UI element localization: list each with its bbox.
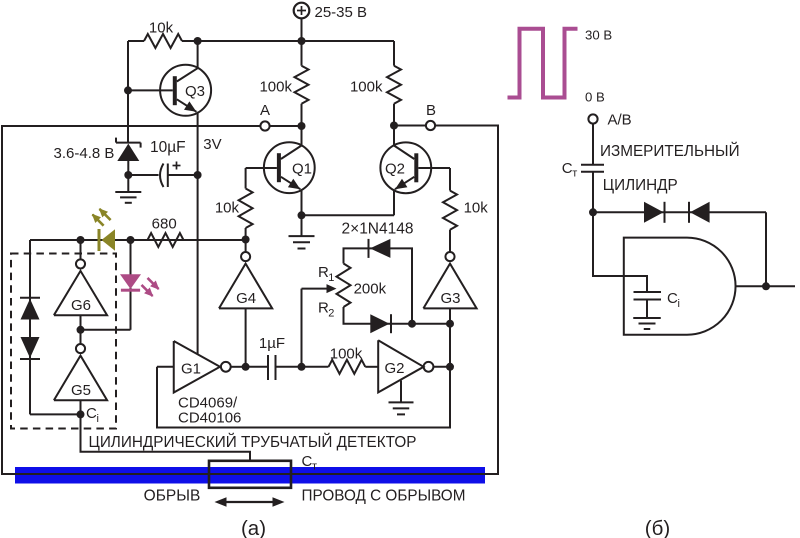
- wire G5 out: [80, 400, 82, 414]
- label measuring cylinder: [600, 142, 740, 194]
- svg-text:т: т: [572, 168, 577, 180]
- svg-text:Q2: Q2: [385, 161, 405, 178]
- node A/B terminal: [588, 112, 631, 129]
- svg-text:ЦИЛИНДР: ЦИЛИНДР: [603, 177, 678, 194]
- junction G6 input: [77, 236, 85, 244]
- led LED1 yellow: [92, 208, 115, 251]
- detector tube CT box: [209, 461, 291, 488]
- svg-text:(б): (б): [645, 517, 670, 538]
- capacitor Ci (b): [634, 290, 680, 310]
- wire left vertical rail-to-zener: [127, 41, 129, 142]
- junction Q3 base: [124, 86, 132, 94]
- label 30V: [585, 28, 612, 43]
- svg-text:Q1: Q1: [292, 161, 312, 178]
- junction diode row mid: [408, 320, 416, 328]
- svg-text:C: C: [86, 405, 97, 422]
- junction G2out/G3/feedback: [446, 363, 454, 371]
- junction emitters/ground: [298, 211, 306, 219]
- inverter G6: [54, 240, 107, 315]
- resistor 100k left: [259, 41, 308, 126]
- svg-text:2: 2: [328, 308, 334, 320]
- blue wire under test: [15, 467, 485, 484]
- resistor 680: [148, 216, 184, 247]
- svg-text:10k: 10k: [215, 200, 240, 217]
- label CD4069/CD40106: [178, 395, 241, 427]
- wire top rail: [182, 40, 394, 42]
- resistor 10k Q1 base: [215, 168, 253, 240]
- wire chain bottom: [30, 413, 81, 415]
- svg-text:т: т: [312, 461, 317, 473]
- svg-text:ИЗМЕРИТЕЛЬНЫЙ: ИЗМЕРИТЕЛЬНЫЙ: [600, 142, 740, 160]
- wire G2 output: [433, 366, 450, 368]
- wire Q3 emitter vertical 3V: [198, 112, 222, 354]
- svg-text:Q3: Q3: [185, 83, 205, 100]
- svg-text:G2: G2: [385, 360, 405, 377]
- wire cylinder output: [736, 285, 795, 287]
- svg-text:C: C: [302, 453, 313, 470]
- junction cap/emitter line: [194, 171, 202, 179]
- node A terminal: [260, 102, 270, 131]
- wire diode row to G3: [449, 308, 451, 323]
- wire top rail left: [128, 40, 144, 42]
- svg-text:200k: 200k: [354, 281, 387, 298]
- label detector: [89, 433, 417, 451]
- svg-text:3.6-4.8 В: 3.6-4.8 В: [54, 145, 115, 162]
- wire LED2 to junction: [81, 329, 131, 331]
- junction G6/G5/LED2: [77, 326, 85, 334]
- svg-text:i: i: [678, 298, 680, 310]
- wire right edge of loop: [497, 125, 499, 476]
- label CT: [302, 453, 318, 473]
- svg-text:2×1N4148: 2×1N4148: [342, 221, 414, 238]
- zener diode 3.6-4.8V: [54, 138, 141, 175]
- svg-text:G5: G5: [71, 382, 91, 399]
- label (a): [241, 517, 266, 538]
- double arrow break span: [215, 497, 285, 507]
- wire G1 input: [157, 366, 174, 368]
- junction Ci node: [77, 405, 99, 425]
- wire A/B down: [592, 124, 594, 165]
- ground G2: [389, 381, 414, 415]
- svg-text:G6: G6: [71, 297, 91, 314]
- wire Q3 collector up: [197, 41, 199, 68]
- svg-text:G4: G4: [236, 290, 256, 307]
- capacitor 1uF: [246, 335, 302, 380]
- svg-text:10µF: 10µF: [150, 139, 186, 156]
- junction rail/supply: [298, 37, 306, 45]
- junction rail/Q3 collector: [194, 37, 202, 45]
- svg-text:100k: 100k: [330, 346, 363, 363]
- dashed enclosure: [11, 254, 116, 429]
- svg-text:CD40106: CD40106: [178, 410, 241, 427]
- svg-text:1µF: 1µF: [259, 335, 285, 352]
- inverter G4: [219, 240, 272, 309]
- svg-text:30 В: 30 В: [585, 28, 612, 43]
- wire B right: [436, 125, 498, 127]
- junction diode row right: [446, 320, 454, 328]
- wire rail corner to right 100k: [393, 41, 395, 66]
- junction node A/100k/Q1: [298, 122, 306, 130]
- label (b): [645, 517, 670, 538]
- resistor 100k right: [350, 66, 401, 126]
- ground Q1/Q2 emitters: [289, 215, 315, 248]
- svg-text:(а): (а): [241, 517, 266, 538]
- label ПРОВОД С ОБРЫВОМ: [302, 488, 466, 505]
- label 0V: [585, 90, 605, 105]
- wire LED row: [30, 239, 246, 241]
- wire Q2 emitter down: [393, 189, 395, 215]
- inverter G1: [174, 341, 231, 393]
- svg-text:10k: 10k: [464, 200, 489, 217]
- junction 680/10k/G4: [242, 236, 250, 244]
- svg-text:ПРОВОД С ОБРЫВОМ: ПРОВОД С ОБРЫВОМ: [302, 488, 466, 505]
- svg-text:100k: 100k: [350, 79, 383, 96]
- svg-text:A/B: A/B: [608, 112, 632, 129]
- ground Ci: [633, 300, 661, 330]
- diode D4 (bottom, points right): [370, 314, 391, 333]
- wire Q1 collector: [301, 126, 303, 146]
- svg-text:ОБРЫВ: ОБРЫВ: [144, 488, 201, 505]
- wire diodes down right: [765, 212, 767, 286]
- resistor 100k G2: [302, 346, 379, 374]
- junction 1uF/100k/wiper: [298, 363, 306, 371]
- wire G2out to diode row: [449, 324, 451, 367]
- svg-text:C: C: [562, 160, 573, 177]
- power supply 25-35V terminal: [294, 3, 367, 41]
- transistor Q1: [246, 142, 315, 193]
- diode D-up (chain top): [20, 298, 40, 320]
- wire pot top: [344, 248, 413, 323]
- svg-text:10k: 10k: [149, 20, 174, 37]
- led LED2 pink: [120, 274, 159, 297]
- junction G1out/G4/1uF: [242, 363, 250, 371]
- svg-text:680: 680: [152, 216, 177, 233]
- cylinder gate shape: [624, 238, 736, 335]
- inverter G3: [423, 252, 476, 308]
- junction LED2 branch: [127, 236, 135, 244]
- svg-text:i: i: [97, 413, 99, 425]
- svg-text:25-35 В: 25-35 В: [315, 4, 368, 21]
- wire Ci to detector: [81, 414, 251, 460]
- wire B left: [394, 125, 425, 127]
- potentiometer 200k R1/R2: [302, 264, 387, 320]
- svg-text:100k: 100k: [259, 79, 292, 96]
- wire diode-chain corner: [29, 240, 31, 414]
- svg-text:B: B: [426, 102, 436, 119]
- svg-text:A: A: [260, 102, 270, 119]
- diode D6 (points left): [689, 202, 710, 223]
- label break ОБРЫВ: [144, 488, 201, 505]
- transistor Q2: [380, 142, 450, 193]
- svg-text:1: 1: [328, 272, 334, 284]
- transistor Q3: [128, 65, 211, 116]
- inverter G5: [54, 330, 107, 400]
- svg-text:G1: G1: [181, 361, 201, 378]
- capacitor 10uF: [128, 139, 197, 187]
- wire detector conductor: [1, 473, 498, 475]
- wire into cylinder: [593, 212, 647, 292]
- wire left edge of loop: [1, 125, 3, 475]
- wire G6 out: [80, 315, 82, 330]
- node B terminal: [426, 102, 436, 130]
- diode D-down (chain bottom): [20, 337, 40, 359]
- svg-text:0 В: 0 В: [585, 90, 605, 105]
- junction node B/100k/Q2: [390, 122, 398, 130]
- wire pot bottom: [344, 307, 451, 324]
- wire Q1 emitter down: [301, 189, 303, 215]
- inverter G2: [378, 340, 433, 392]
- wire emitter bridge Q1-Q2: [302, 214, 395, 216]
- junction CT node: [589, 208, 597, 216]
- svg-text:3V: 3V: [203, 136, 221, 153]
- svg-text:C: C: [667, 290, 678, 307]
- svg-text:G3: G3: [440, 290, 460, 307]
- ground below zener: [115, 175, 141, 203]
- junction zener/cap/ground: [124, 171, 132, 179]
- wire G4 to G1 output: [245, 308, 247, 366]
- diode D5 (points right): [644, 202, 665, 223]
- capacitor CT (b): [562, 160, 604, 180]
- resistor 10k G3-Q2: [443, 168, 488, 252]
- wire G1 output: [231, 366, 246, 368]
- svg-text:ЦИЛИНДРИЧЕСКИЙ ТРУБЧАТЫЙ ДЕТЕК: ЦИЛИНДРИЧЕСКИЙ ТРУБЧАТЫЙ ДЕТЕКТОР: [89, 433, 417, 451]
- resistor 10k top-left: [144, 20, 182, 49]
- wire wiper down: [301, 289, 303, 367]
- wire node-A to Q1 collector: [270, 125, 302, 127]
- wire node-A horizontal: [2, 125, 260, 127]
- wire Q2 collector: [393, 126, 395, 146]
- wire LED2 vertical: [130, 240, 132, 330]
- wire CT down: [592, 172, 594, 213]
- waveform square wave: [508, 29, 578, 98]
- diode D3 (top, points left): [342, 221, 414, 258]
- wire feedback loop: [157, 367, 450, 428]
- junction output node: [762, 282, 770, 290]
- wire conductor overlay: [1, 473, 498, 475]
- wire diode row (b): [593, 211, 766, 213]
